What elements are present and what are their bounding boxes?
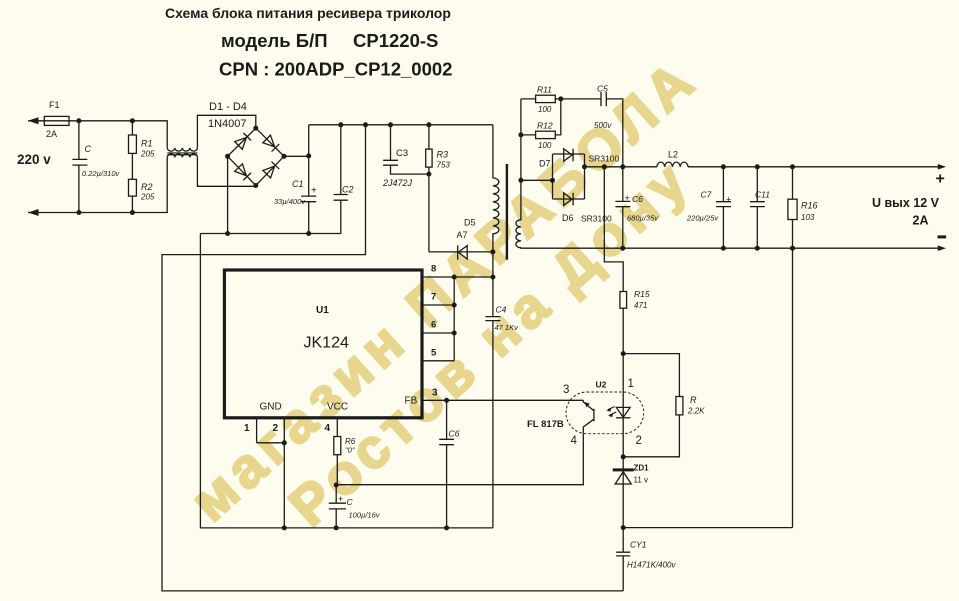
wire: choke to bridge bottom: [197, 157, 255, 186]
svg-text:JK124: JK124: [304, 335, 349, 352]
zener ZD1: [622, 457, 624, 528]
diode D1 (top-left edge): [235, 133, 251, 149]
node: C top: [76, 118, 81, 123]
transformer primary winding: [493, 125, 499, 277]
wire: choke to bridge top: [197, 115, 255, 147]
pin 5 line: [422, 360, 454, 362]
capacitor C input: [72, 121, 87, 213]
wire: secondary plus rail: [585, 166, 657, 168]
svg-text:2.2K: 2.2K: [687, 407, 705, 416]
svg-text:ZD1: ZD1: [634, 464, 650, 473]
node: rectifier output on rail: [582, 164, 587, 169]
pin 8 line: [422, 276, 493, 278]
optocoupler U2 body: [566, 392, 644, 434]
svg-text:R: R: [690, 395, 697, 405]
svg-text:220 v: 220 v: [17, 152, 51, 167]
resistor R2: [129, 179, 137, 196]
node: snubber bottom junction: [426, 172, 431, 177]
output arrow minus: [938, 245, 946, 251]
opto phototransistor: [583, 400, 594, 433]
capacitor C 100u: [329, 485, 346, 528]
resistor R6 on VCC pin 4: [336, 418, 338, 485]
wire: FB line to opto pin3: [422, 399, 583, 401]
svg-text:D1 - D4: D1 - D4: [209, 101, 247, 113]
svg-text:3: 3: [563, 384, 569, 396]
diode D7: [564, 149, 572, 162]
wire: secondary tap to rectifier block: [521, 179, 553, 181]
svg-text:R15: R15: [634, 289, 650, 299]
wire: opto pin4 to VCC node: [336, 434, 583, 485]
node: DC minus bridge tap: [225, 231, 230, 236]
node: zener bottom junction: [621, 525, 626, 530]
node: pin7 tie: [452, 303, 457, 308]
resistor R16: [792, 167, 794, 528]
wire: AC bottom rail: [28, 157, 167, 212]
svg-text:+: +: [936, 171, 945, 188]
diode D6: [564, 193, 572, 206]
svg-text:L2: L2: [668, 150, 678, 160]
svg-text:C5: C5: [597, 84, 608, 94]
svg-text:R3: R3: [437, 150, 449, 160]
svg-text:A7: A7: [457, 230, 468, 240]
svg-text:C7: C7: [701, 190, 712, 200]
choke L1 top winding: [167, 148, 197, 151]
node: R2 bottom: [130, 210, 135, 215]
svg-text:3: 3: [432, 388, 438, 399]
svg-text:4: 4: [571, 435, 578, 447]
svg-text:FL 817B: FL 817B: [527, 419, 564, 430]
node: primary bottom: [490, 249, 495, 254]
node: C2 top: [338, 122, 343, 127]
wire: DC minus rail: [200, 233, 340, 235]
svg-text:SR3100: SR3100: [589, 154, 620, 164]
node: pin2 ground: [282, 525, 287, 530]
capacitor C3: [383, 125, 429, 174]
choke L1 core lines: [167, 153, 197, 155]
diode D3 (bottom-left edge): [235, 164, 251, 180]
svg-text:CY1: CY1: [630, 540, 647, 550]
svg-text:D7: D7: [539, 159, 551, 169]
resistor R 2.2K: [623, 354, 679, 457]
node: bridge top: [253, 126, 258, 131]
svg-text:5: 5: [431, 348, 437, 359]
svg-text:1N4007: 1N4007: [208, 118, 247, 130]
svg-text:753: 753: [437, 161, 451, 170]
svg-text:103: 103: [801, 213, 815, 222]
svg-text:C4: C4: [496, 305, 507, 315]
node: R16 bottom rail: [790, 246, 795, 251]
svg-text:11 v: 11 v: [634, 476, 649, 485]
svg-text:100: 100: [538, 105, 552, 114]
wire: plus rail to output: [688, 166, 939, 168]
node: C 100u bottom: [334, 525, 339, 530]
resistor R12: [521, 99, 561, 135]
svg-text:220µ/25v: 220µ/25v: [686, 214, 719, 223]
inductor L2: [657, 162, 688, 167]
resistor R3: [428, 125, 430, 252]
opto LED: [616, 407, 630, 417]
svg-text:FB: FB: [405, 396, 418, 407]
node: pin8 tie: [452, 275, 457, 280]
resistor R11: [521, 98, 601, 100]
node: pin2 junction: [282, 440, 287, 445]
svg-text:C2: C2: [342, 185, 354, 195]
capacitor CY1: [616, 528, 630, 591]
node: C7 top: [721, 164, 726, 169]
svg-text:CPN : 200ADP_CP12_0002: CPN : 200ADP_CP12_0002: [219, 59, 452, 80]
node: C7 bottom: [721, 246, 726, 251]
svg-text:C6: C6: [632, 194, 643, 204]
capacitor C4: [485, 277, 500, 528]
opto vertical wire pin1 side: [622, 354, 624, 457]
svg-text:R12: R12: [537, 121, 553, 131]
svg-text:2: 2: [636, 435, 642, 447]
svg-text:R16: R16: [801, 201, 818, 211]
svg-text:2A: 2A: [913, 214, 929, 228]
node: R15 bottom: [621, 351, 626, 356]
wire: bridge plus to C1: [284, 155, 309, 157]
node: R12 left tap: [518, 132, 523, 137]
svg-text:C3: C3: [396, 148, 408, 159]
svg-text:6: 6: [431, 320, 436, 331]
svg-text:"0": "0": [345, 446, 355, 455]
node: opto pin2 zener junction: [621, 454, 626, 459]
pins 1 and 2 stubs: [257, 418, 285, 528]
pin tie line: [453, 277, 455, 361]
svg-text:U вых 12 V: U вых 12 V: [872, 196, 940, 210]
resistor R1: [131, 121, 133, 213]
svg-text:GND: GND: [260, 402, 282, 413]
node: bridge right: [282, 154, 287, 159]
wire: snubber to D5: [429, 251, 493, 253]
svg-text:C: C: [347, 497, 354, 507]
svg-text:8: 8: [431, 264, 436, 275]
wire: bridge minus down: [227, 156, 229, 233]
node: FB / C6b tap: [444, 398, 449, 403]
pin 7 line: [422, 304, 454, 306]
svg-text:+: +: [625, 193, 630, 203]
choke L1 bottom winding: [167, 154, 197, 157]
svg-text:C: C: [85, 144, 92, 154]
svg-text:205: 205: [140, 150, 155, 159]
capacitor C5: [601, 92, 623, 167]
wire: ground return to zener node: [623, 527, 792, 529]
diode D4 (bottom-right edge): [263, 162, 279, 178]
svg-text:модель Б/П: модель Б/П: [221, 30, 328, 51]
svg-text:4: 4: [325, 423, 331, 434]
input arrow top: [28, 117, 39, 124]
fuse F1: [44, 116, 69, 125]
wire: DC plus rail: [309, 124, 493, 126]
svg-text:1: 1: [244, 423, 250, 434]
svg-text:1: 1: [628, 378, 634, 390]
svg-text:2A: 2A: [46, 129, 57, 139]
node: bridge left: [225, 154, 230, 159]
node: C bottom: [76, 210, 81, 215]
svg-text:+: +: [338, 494, 343, 504]
svg-text:2J472J: 2J472J: [382, 178, 413, 188]
svg-text:D6: D6: [562, 213, 574, 223]
transformer secondary winding: [516, 99, 939, 248]
node: secondary top tap: [518, 178, 523, 183]
svg-text:+: +: [311, 186, 317, 197]
svg-text:+: +: [726, 195, 731, 205]
node: R1 top: [130, 118, 135, 123]
input arrow bottom: [28, 209, 39, 216]
node: pin6 tie: [452, 331, 457, 336]
svg-text:C1: C1: [292, 179, 304, 189]
wire: AC top rail: [28, 121, 167, 148]
svg-text:H1471K/400v: H1471K/400v: [627, 561, 676, 570]
svg-text:100µ/16v: 100µ/16v: [349, 511, 381, 520]
svg-text:D5: D5: [464, 218, 476, 228]
svg-text:7: 7: [431, 292, 436, 303]
node: VCC node: [334, 483, 339, 488]
node: C6b ground: [444, 525, 449, 530]
rectifier block frame: [553, 154, 585, 199]
svg-text:F1: F1: [49, 100, 60, 110]
svg-text:33µ/400v: 33µ/400v: [274, 197, 306, 206]
output arrow plus: [938, 164, 946, 170]
node: R16 top: [790, 164, 795, 169]
node: C3 top: [388, 122, 393, 127]
node: C1 top junction: [306, 153, 311, 158]
capacitor C2: [334, 125, 348, 234]
node: C11 top: [755, 164, 760, 169]
opto light arrows: [608, 407, 616, 415]
IC U1 body: [224, 270, 422, 418]
capacitor C6 feedback: [439, 400, 454, 528]
svg-text:R1: R1: [141, 139, 153, 149]
svg-text:Схема блока питания ресивера т: Схема блока питания ресивера триколор: [165, 5, 451, 21]
resistor R15: [604, 167, 623, 354]
svg-text:47 1Kv: 47 1Kv: [495, 323, 520, 332]
svg-text:2: 2: [273, 423, 279, 434]
svg-text:R11: R11: [537, 85, 552, 95]
svg-text:U1: U1: [316, 305, 329, 316]
svg-text:500v: 500v: [594, 121, 612, 130]
svg-text:680µ/35v: 680µ/35v: [627, 214, 659, 223]
transformer core: [506, 164, 508, 260]
bridge D1-D4 diamond: [228, 128, 284, 185]
svg-text:0.22µ/310v: 0.22µ/310v: [82, 169, 121, 178]
diode D5 A7: [457, 245, 459, 259]
node: loop tap: [363, 122, 368, 127]
svg-text:205: 205: [140, 193, 155, 202]
svg-text:471: 471: [634, 301, 647, 310]
node: C1 bottom: [306, 231, 311, 236]
wire: primary return loop: [162, 125, 623, 591]
node: R11 right junction: [558, 96, 563, 101]
node: C5/C6 rail junction: [620, 164, 625, 169]
svg-text:U2: U2: [596, 380, 607, 390]
svg-text:SR3100: SR3100: [581, 214, 612, 224]
svg-text:VCC: VCC: [327, 402, 348, 413]
diode D2 (top-right edge): [263, 135, 279, 151]
node: bridge bottom: [253, 183, 258, 188]
node: C11 bottom: [755, 246, 760, 251]
node: rectifier block left: [550, 178, 555, 183]
wire: primary ground rail: [200, 234, 493, 528]
capacitor C7: [716, 167, 731, 248]
svg-text:R2: R2: [141, 182, 153, 192]
node: C6 bottom: [620, 246, 625, 251]
svg-text:СР1220-S: СР1220-S: [353, 30, 438, 51]
node: R3 top: [426, 122, 431, 127]
pin 6 line: [422, 332, 454, 334]
capacitor C1: [301, 125, 316, 234]
node: drain corner C4 tap: [490, 275, 495, 280]
node: R15 rail tap: [602, 164, 607, 169]
capacitor C6: [615, 167, 630, 248]
capacitor C11: [750, 167, 765, 248]
svg-text:C11: C11: [755, 190, 770, 200]
svg-text:C6: C6: [449, 429, 460, 439]
svg-text:100: 100: [538, 141, 552, 150]
